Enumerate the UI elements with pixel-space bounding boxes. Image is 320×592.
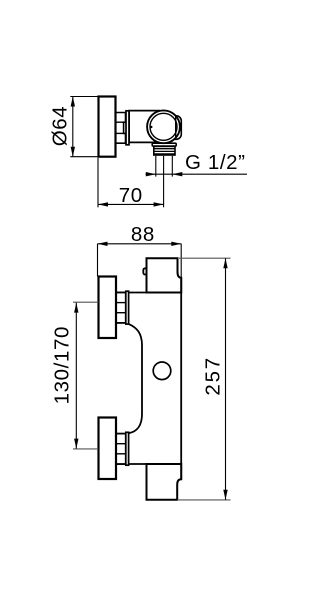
svg-text:70: 70 [119, 184, 143, 207]
svg-text:257: 257 [202, 356, 225, 396]
svg-text:130/170: 130/170 [51, 326, 74, 404]
svg-text:88: 88 [131, 223, 155, 246]
svg-text:G 1/2”: G 1/2” [185, 151, 246, 174]
svg-text:Ø64: Ø64 [49, 106, 72, 147]
